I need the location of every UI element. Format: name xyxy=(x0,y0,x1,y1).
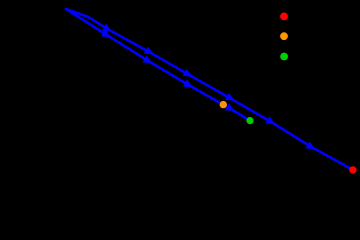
orange dot on trajectory B xyxy=(220,101,227,108)
legend orange dot xyxy=(280,32,288,40)
arrow A3 xyxy=(183,70,191,76)
legend green dot xyxy=(280,53,288,61)
arrow A5 xyxy=(266,117,274,124)
arrow B2 xyxy=(143,56,151,63)
arrow B3 xyxy=(184,80,192,87)
trajectory B (lower, tip to green dot) xyxy=(66,9,250,121)
red dot at end of trajectory A xyxy=(349,166,356,173)
green dot at end of trajectory B xyxy=(246,117,253,124)
arrow A1 xyxy=(103,25,111,31)
arrow B4 xyxy=(225,104,233,111)
arrow A6 xyxy=(306,142,314,149)
arrow A4 xyxy=(226,94,234,100)
arrow B1 xyxy=(102,30,110,37)
trajectory A (upper, tip to red dot) xyxy=(66,9,353,170)
legend red dot xyxy=(280,13,288,21)
arrow A2 xyxy=(145,47,153,53)
